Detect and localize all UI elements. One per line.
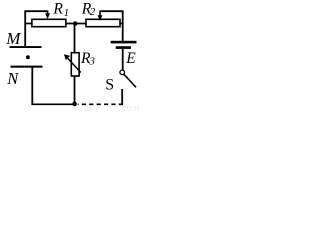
svg-text:1: 1 [64,7,70,19]
svg-text:R: R [52,0,63,17]
wire: left vertical (bypass to plate M) [24,11,26,46]
svg-text:M: M [5,29,21,48]
capacitor plate N [11,66,43,68]
wire: N plate vertical [31,67,33,105]
node: bottom junction with R3 [72,102,77,107]
resistor R1 box [32,19,66,26]
wire: R2 bypass (wiper to right vertical) [100,10,124,12]
wire: R3 top (junction to box) [74,24,76,53]
wire: R3 bottom (box to bottom wire) [74,76,76,104]
svg-text:com: com [122,103,139,111]
battery E: short plate [116,46,131,49]
switch S: blade [124,74,136,87]
svg-text:3: 3 [88,55,95,67]
wire: right vertical (bypass corner to battery) [122,11,124,41]
capacitor plate M [10,46,42,48]
svg-text:S: S [105,76,114,93]
battery E: long plate [111,41,137,44]
wire: battery to switch [122,49,124,70]
wire: bottom right horizontal (dashed) [78,103,123,105]
resistor R2 box [86,19,120,26]
wire: bottom left horizontal [31,103,74,105]
arrow: R3 diagonal (variable) shaft [68,58,81,73]
svg-text:E: E [125,50,136,67]
wire: stub to R1 left terminal [25,23,32,25]
svg-text:2: 2 [90,6,96,18]
arrow: R2 wiper arrowhead [98,15,103,21]
svg-text:N: N [6,69,19,88]
wire: switch lower terminal down [121,89,123,104]
arrow: R3 arrowhead [64,54,70,60]
wire: R1 to R2 [66,23,86,25]
watermark [84,103,139,113]
node: junction of R1/R2/R3 [73,21,78,26]
arrow: R1 wiper arrowhead [45,13,50,19]
resistor R3 box [71,53,79,76]
node: charged particle between plates [26,55,30,59]
wire: R1 wiper drop [47,11,49,15]
switch S: pivot circle [120,70,125,75]
wire: R2 wiper drop [99,11,101,16]
wire: R1 bypass (left corner to wiper corner) [24,10,47,12]
wire: R2 right terminal stub [120,23,123,25]
